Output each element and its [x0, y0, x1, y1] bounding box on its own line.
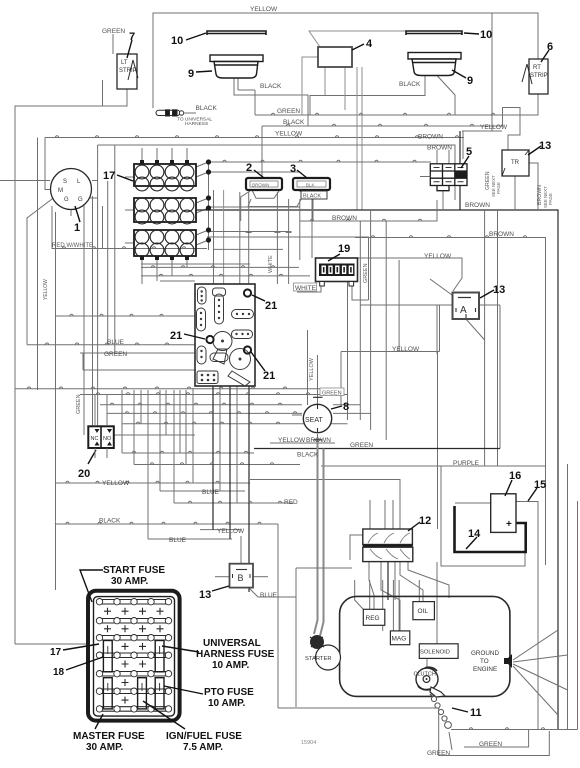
svg-text:8: 8: [343, 401, 349, 413]
svg-text:13: 13: [199, 589, 211, 601]
svg-text:TR: TR: [511, 160, 520, 166]
svg-text:NC: NC: [91, 436, 99, 442]
svg-text:18: 18: [53, 667, 65, 678]
svg-text:BLACK: BLACK: [99, 518, 121, 525]
svg-text:17: 17: [103, 170, 115, 182]
svg-text:GREEN: GREEN: [102, 28, 125, 35]
svg-text:6: 6: [547, 41, 553, 53]
svg-text:OIL: OIL: [418, 608, 429, 615]
svg-text:BLACK: BLACK: [399, 81, 421, 88]
svg-text:BROWN: BROWN: [306, 437, 331, 444]
svg-text:MAG: MAG: [392, 636, 407, 643]
svg-text:REG: REG: [366, 615, 380, 622]
svg-text:GREEN: GREEN: [350, 442, 373, 449]
svg-text:BROWN: BROWN: [252, 183, 269, 188]
svg-text:START FUSE: START FUSE: [103, 565, 165, 576]
svg-text:YELLOW: YELLOW: [250, 6, 278, 13]
svg-text:G: G: [78, 197, 83, 203]
svg-text:GREEN: GREEN: [363, 263, 369, 283]
svg-text:RED W/WHITE: RED W/WHITE: [52, 243, 93, 249]
svg-text:17: 17: [50, 647, 62, 658]
svg-text:LT: LT: [121, 60, 128, 66]
svg-text:ENGINE: ENGINE: [473, 666, 497, 673]
svg-text:NO: NO: [103, 436, 112, 442]
svg-text:19: 19: [338, 243, 350, 255]
svg-text:PTO FUSE: PTO FUSE: [204, 687, 254, 698]
svg-text:21: 21: [263, 370, 275, 382]
svg-text:1: 1: [74, 222, 80, 234]
svg-text:2: 2: [246, 162, 252, 174]
svg-text:GREEN: GREEN: [76, 394, 82, 414]
svg-text:YELLOW: YELLOW: [275, 131, 303, 138]
svg-text:GREEN: GREEN: [104, 351, 127, 358]
svg-text:BROWN: BROWN: [465, 202, 490, 209]
svg-text:M: M: [58, 188, 63, 194]
svg-text:BLUE: BLUE: [260, 592, 278, 599]
svg-text:YELLOW: YELLOW: [278, 437, 306, 444]
svg-text:RED: RED: [284, 499, 298, 506]
svg-text:BLACK: BLACK: [260, 83, 282, 90]
svg-text:YELLOW: YELLOW: [102, 480, 130, 487]
svg-text:9: 9: [467, 75, 473, 87]
svg-text:WHITE: WHITE: [295, 285, 317, 292]
svg-text:GREEN: GREEN: [427, 750, 450, 757]
svg-text:10 AMP.: 10 AMP.: [212, 660, 249, 671]
svg-text:5: 5: [466, 146, 472, 158]
svg-text:13: 13: [493, 284, 505, 296]
svg-text:4: 4: [366, 38, 373, 50]
svg-text:PURPLE: PURPLE: [453, 460, 480, 467]
svg-text:B: B: [238, 573, 244, 583]
svg-text:21: 21: [170, 330, 182, 342]
svg-text:BLACK: BLACK: [297, 452, 319, 459]
svg-text:7: 7: [129, 31, 135, 43]
svg-text:GREEN: GREEN: [277, 108, 300, 115]
svg-text:30 AMP.: 30 AMP.: [111, 576, 148, 587]
svg-text:YELLOW: YELLOW: [480, 124, 508, 131]
svg-text:G: G: [64, 197, 69, 203]
svg-text:YELLOW: YELLOW: [43, 279, 49, 300]
svg-text:BROWN: BROWN: [418, 134, 443, 141]
svg-text:30 AMP.: 30 AMP.: [86, 742, 123, 753]
svg-text:MASTER FUSE: MASTER FUSE: [73, 731, 145, 742]
svg-text:YELLOW: YELLOW: [217, 528, 245, 535]
svg-text:WHITE: WHITE: [268, 255, 274, 273]
svg-text:BLACK: BLACK: [196, 105, 218, 112]
svg-text:BLACK: BLACK: [303, 194, 321, 200]
svg-text:BLUE: BLUE: [202, 489, 220, 496]
svg-text:PAGE: PAGE: [548, 193, 553, 205]
svg-text:STARTER: STARTER: [305, 656, 332, 662]
svg-text:12: 12: [419, 515, 431, 527]
svg-text:SEAT: SEAT: [305, 417, 323, 424]
svg-text:STRIP: STRIP: [530, 73, 548, 79]
svg-text:BROWN: BROWN: [427, 145, 452, 152]
svg-text:20: 20: [78, 468, 90, 480]
svg-text:13: 13: [539, 140, 551, 152]
svg-text:RT: RT: [533, 65, 541, 71]
svg-text:3: 3: [290, 163, 296, 175]
svg-text:BROWN: BROWN: [332, 215, 357, 222]
svg-text:+: +: [506, 519, 512, 530]
svg-text:YELLOW: YELLOW: [309, 357, 315, 381]
svg-text:STRIP: STRIP: [119, 68, 137, 74]
svg-text:BLUE: BLUE: [169, 537, 187, 544]
svg-text:BROWN: BROWN: [489, 231, 514, 238]
svg-text:S: S: [63, 179, 67, 185]
svg-text:10: 10: [480, 29, 492, 41]
svg-text:7.5 AMP.: 7.5 AMP.: [183, 742, 223, 753]
svg-text:10: 10: [171, 35, 183, 47]
svg-text:GROUND: GROUND: [471, 650, 499, 657]
svg-text:BLACK: BLACK: [283, 119, 305, 126]
svg-text:15: 15: [534, 479, 546, 491]
svg-text:PAGE: PAGE: [496, 182, 501, 194]
svg-text:16: 16: [509, 470, 521, 482]
svg-text:15904: 15904: [301, 740, 316, 746]
svg-text:TO: TO: [480, 658, 489, 665]
svg-text:GREEN: GREEN: [322, 391, 342, 397]
svg-text:YELLOW: YELLOW: [392, 346, 420, 353]
svg-text:11: 11: [470, 707, 482, 719]
svg-text:21: 21: [265, 300, 277, 312]
svg-text:BLK: BLK: [306, 183, 315, 188]
svg-text:SOLENOID: SOLENOID: [420, 650, 450, 656]
svg-text:YELLOW: YELLOW: [424, 253, 452, 260]
svg-text:BLUE: BLUE: [107, 339, 125, 346]
svg-text:HARNESS FUSE: HARNESS FUSE: [196, 649, 275, 660]
svg-text:UNIVERSAL: UNIVERSAL: [203, 638, 261, 649]
svg-text:10 AMP.: 10 AMP.: [208, 698, 245, 709]
svg-text:IGN/FUEL FUSE: IGN/FUEL FUSE: [166, 731, 242, 742]
svg-text:9: 9: [188, 68, 194, 80]
svg-text:GREEN: GREEN: [479, 741, 502, 748]
svg-text:14: 14: [468, 528, 481, 540]
svg-text:HARNESS: HARNESS: [185, 121, 208, 127]
